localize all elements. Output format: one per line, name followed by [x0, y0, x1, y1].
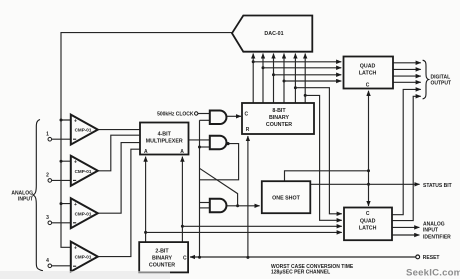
node comparator2 + [60, 160, 63, 163]
wire quad latch 2 output 2 to digital output [392, 96, 421, 220]
wire counter bit1 to DAC [252, 54, 254, 104]
svg-text:+: + [74, 160, 77, 166]
svg-text:INPUT: INPUT [18, 196, 33, 202]
wire G3 output to one-shot input [227, 205, 260, 207]
node G2 output [226, 142, 229, 145]
node bit4 tap [283, 80, 286, 83]
wire gate G1/G2 lower input vertical bus [199, 120, 201, 257]
svg-text:QUAD: QUAD [360, 219, 376, 225]
svg-text:+: + [74, 246, 77, 252]
svg-text:COUNTER: COUNTER [149, 262, 175, 268]
svg-text:LATCH: LATCH [359, 71, 377, 77]
svg-text:QUAD: QUAD [360, 64, 376, 70]
wire quad latch 1 output 3 [393, 75, 421, 77]
node comparator3 + [60, 202, 63, 205]
op-amp comparator CMP-01 #3 [71, 198, 98, 228]
terminal 500kHz clock [195, 112, 198, 115]
quad latch U3 (top) [344, 57, 394, 89]
scan smudge bottom left [0, 271, 170, 279]
wire 2-bit counter b1 to multiplexer A [181, 157, 183, 243]
svg-text:BINARY: BINARY [269, 115, 290, 121]
2-bit binary counter U6 [139, 242, 188, 272]
node bit6 tap [304, 94, 307, 97]
svg-text:STATUS BIT: STATUS BIT [423, 183, 452, 189]
wire bit4 to quad latch 1 [284, 80, 341, 82]
terminal input 3 [48, 221, 52, 225]
node b1 tap [181, 225, 184, 228]
wire multiplexer output to AND gate G2 [189, 139, 210, 141]
op-amp comparator CMP-01 #4 [71, 242, 98, 272]
svg-text:128μSEC PER CHANNEL: 128μSEC PER CHANNEL [271, 270, 330, 276]
node bit3 tap [272, 73, 275, 76]
svg-text:8-BIT: 8-BIT [272, 108, 286, 114]
wire G1 output to 8-bit counter C input [227, 115, 242, 117]
svg-text:C: C [366, 83, 370, 89]
wire one-shot output to status bit [310, 183, 419, 185]
wire bit2 to quad latch 1 [263, 67, 341, 69]
node reset line / gate bus [198, 256, 201, 259]
node comparator1 + [60, 119, 63, 122]
4-bit multiplexer U1 [140, 123, 189, 155]
svg-text:CMP-01: CMP-01 [75, 211, 92, 216]
svg-text:CMP-01: CMP-01 [75, 255, 92, 260]
wire gate G3 upper input stub [200, 202, 210, 204]
node on G3 output [236, 204, 239, 207]
svg-text:C: C [245, 112, 249, 118]
AND gate G2 [210, 136, 227, 150]
svg-text:+: + [74, 202, 77, 208]
svg-text:1: 1 [46, 132, 49, 138]
node bit2 tap [262, 66, 265, 69]
wire gate G3 lower input stub [200, 207, 210, 209]
wire bit6 to quad latch 2 input 2 [305, 95, 342, 220]
svg-text:4: 4 [46, 258, 49, 264]
one shot U5 [262, 181, 311, 213]
svg-text:2-BIT: 2-BIT [155, 248, 169, 254]
svg-text:RESET: RESET [423, 255, 440, 261]
wire one-shot top to latch strobe bus [285, 171, 369, 181]
node strobe / status [367, 183, 370, 186]
8-bit binary counter U2 [242, 103, 314, 134]
wire input3 to CMP-01 #3 [52, 222, 71, 224]
svg-text:MULTIPLEXER: MULTIPLEXER [146, 139, 183, 145]
wire G2 output to G3 input net [200, 144, 239, 180]
terminal input 1 [48, 137, 52, 141]
wire CMP4 output to multiplexer input 4 [98, 149, 140, 256]
svg-text:LATCH: LATCH [359, 226, 377, 232]
node bit1 tap [252, 60, 255, 63]
wire quad latch 1 output 2 [393, 68, 421, 70]
terminal input 2 [48, 179, 52, 183]
wire 2-bit counter b0 to multiplexer A [145, 157, 147, 243]
wire CMP2 output to multiplexer input 2 [98, 135, 140, 171]
wire latch strobe vertical [368, 91, 370, 171]
digital output brace [423, 60, 429, 99]
DAC-01 [232, 16, 312, 52]
quad latch U4 (bottom) [344, 208, 392, 241]
node strobe / one-shot [367, 169, 370, 172]
comparator + input stubs [61, 120, 71, 204]
svg-text:2: 2 [46, 173, 49, 179]
wire input2 to CMP-01 #2 [52, 179, 71, 181]
svg-text:COUNTER: COUNTER [266, 122, 292, 128]
svg-text:BINARY: BINARY [152, 255, 173, 261]
wire counter bit6 to DAC [304, 54, 306, 104]
svg-text:OUTPUT: OUTPUT [431, 81, 452, 87]
wire quad latch 2 output 4 analog input identifier [392, 234, 420, 236]
wire CMP1 output to multiplexer input 1 [98, 129, 140, 131]
wire quad latch 2 output 3 analog input identifier [392, 226, 420, 228]
wire 500kHz clock to AND gate G1 [198, 113, 210, 115]
svg-text:500kHz CLOCK: 500kHz CLOCK [157, 111, 194, 117]
wire gate G1 lower input stub [200, 119, 210, 121]
node G2 lower input [198, 146, 201, 149]
svg-text:R: R [246, 127, 250, 133]
wire bit1 to quad latch 1 [253, 61, 341, 63]
wire input4 to CMP-01 #4 [52, 265, 71, 267]
svg-text:3: 3 [46, 215, 49, 221]
wire b0 to quad latch 2 input 4 [146, 231, 342, 233]
wire DAC feedback from top corner to comparator + inputs [61, 33, 232, 248]
terminal RESET circle [416, 255, 420, 259]
AND gate G3 [210, 199, 227, 213]
wire reset line [190, 256, 416, 258]
svg-text:4-BIT: 4-BIT [158, 132, 172, 138]
svg-text:IDENTIFIER: IDENTIFIER [423, 234, 451, 240]
svg-text:SeekIC.com: SeekIC.com [406, 268, 460, 279]
AND gate G1 [210, 111, 227, 125]
svg-text:DAC-01: DAC-01 [264, 31, 283, 37]
wire counter bit3 to DAC [273, 54, 275, 104]
svg-text:A: A [180, 149, 184, 155]
svg-text:C: C [183, 256, 187, 262]
node b0 tap [144, 231, 147, 234]
wire gate G2 lower input stub [200, 146, 210, 148]
svg-text:C: C [366, 211, 370, 217]
wire quad latch 1 output 4 [393, 81, 421, 83]
wire counter bit2 to DAC [262, 54, 264, 104]
wire quad latch 1 output 1 [393, 62, 421, 64]
svg-text:CMP-01: CMP-01 [75, 128, 92, 133]
node bit5 tap [294, 86, 297, 89]
wire counter bit4 to DAC [283, 54, 285, 104]
wire counter bit5 to DAC [294, 54, 296, 104]
wire CMP3 output to multiplexer input 3 [98, 143, 140, 214]
wire bit3 to quad latch 1 [274, 74, 342, 76]
wire quad latch 2 output 1 to digital output [392, 89, 421, 214]
svg-text:A: A [144, 149, 148, 155]
op-amp comparator CMP-01 #2 [71, 156, 98, 186]
analog input brace [33, 120, 43, 271]
wire input1 to CMP-01 #1 [52, 138, 71, 140]
wire b1 to quad latch 2 input 3 [182, 225, 341, 227]
terminal input 4 [48, 264, 52, 268]
node reset line / R [246, 256, 249, 259]
wire bit5 to quad latch 2 input 1 [295, 88, 341, 214]
svg-text:ONE SHOT: ONE SHOT [272, 196, 300, 202]
wire counter R input from reset line [247, 136, 249, 257]
svg-text:CMP-01: CMP-01 [75, 169, 92, 174]
svg-text:INPUT: INPUT [423, 228, 438, 234]
op-amp comparator CMP-01 #1 [71, 115, 98, 145]
svg-text:+: + [74, 119, 77, 125]
wire diagonal G3 output feedback [200, 168, 238, 206]
